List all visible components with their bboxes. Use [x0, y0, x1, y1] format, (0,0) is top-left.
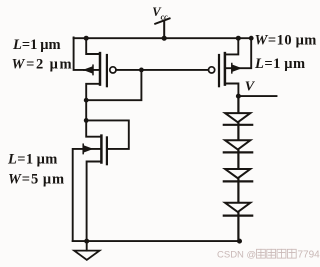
node: rail right end dot: [249, 36, 254, 41]
wire: diode stack vertical: [237, 96, 239, 241]
svg-text:L=1 μm: L=1 μm: [254, 56, 306, 72]
pmos M1 bottom (source) lead: [86, 84, 100, 100]
pmos M2 channel bar: [224, 53, 227, 85]
pmos M2 bottom (drain) lead: [225, 84, 238, 97]
watermark CSDN: [217, 249, 320, 260]
svg-text:W=2 μm: W=2 μm: [12, 56, 74, 72]
node: gate bus junction dot: [139, 68, 144, 73]
diode D3: [224, 169, 252, 181]
ground symbol: [74, 241, 99, 260]
pmos M1 top (drain) lead to rail: [86, 38, 100, 54]
wire: rail left drop to M1 source-arrow lead: [74, 37, 85, 70]
pmos M2 gate bubble: [209, 67, 215, 73]
wire: VCC top rail: [74, 37, 252, 39]
pmos M1 channel bar: [99, 53, 102, 85]
pmos M2 gate bar: [218, 55, 220, 86]
wire: V output tap: [238, 95, 276, 97]
node: V output tap dot: [236, 94, 241, 99]
wire: gate bus branch down-left to M1 drain: [86, 70, 141, 100]
svg-text:7794: 7794: [298, 250, 320, 261]
Vcc supply symbol: [155, 18, 169, 38]
node: drain wire dot lower: [84, 118, 89, 123]
node: M1 top lead rail dot: [84, 36, 89, 41]
node: ground rail dot right: [237, 239, 242, 244]
nmos M3 gate bar: [106, 137, 108, 164]
pmos M1 gate bubble: [110, 67, 116, 73]
node: drain wire dot upper: [84, 98, 89, 103]
svg-text:cc: cc: [161, 12, 169, 21]
pmos M1 gate bar: [106, 55, 108, 86]
node: ground rail dot left: [84, 239, 89, 244]
svg-text:CSDN @: CSDN @: [217, 250, 256, 261]
diode D2: [224, 140, 252, 152]
pmos M2 source arrow lead to rail end: [225, 38, 251, 73]
pmos M2 top (source) lead to rail: [225, 38, 238, 54]
nmos M3 source arrow lead to ground: [73, 144, 102, 241]
node: Vcc junction dot: [162, 36, 167, 41]
wire: bottom ground rail: [73, 240, 240, 242]
nmos M3 bottom (source) lead to ground rail: [87, 162, 102, 242]
wire: M3 gate-to-drain loop: [86, 120, 129, 148]
nmos M3 channel bar: [100, 136, 103, 163]
diode D1: [224, 113, 252, 125]
label Vcc: [152, 5, 168, 21]
diode D4: [224, 203, 252, 216]
svg-text:W=10 μm: W=10 μm: [255, 33, 317, 49]
svg-text:V: V: [245, 79, 256, 94]
pmos M1 source arrow lead: [83, 65, 100, 74]
wire: gate bus between M1 and M2 bubbles: [116, 69, 208, 71]
wire: M1 drain down to M3 drain: [86, 100, 101, 137]
svg-text:W=5 μm: W=5 μm: [8, 172, 65, 188]
svg-text:L=1 μm: L=1 μm: [7, 152, 58, 168]
node: M2 top lead rail dot: [236, 36, 241, 41]
svg-text:L=1 μm: L=1 μm: [12, 37, 61, 53]
